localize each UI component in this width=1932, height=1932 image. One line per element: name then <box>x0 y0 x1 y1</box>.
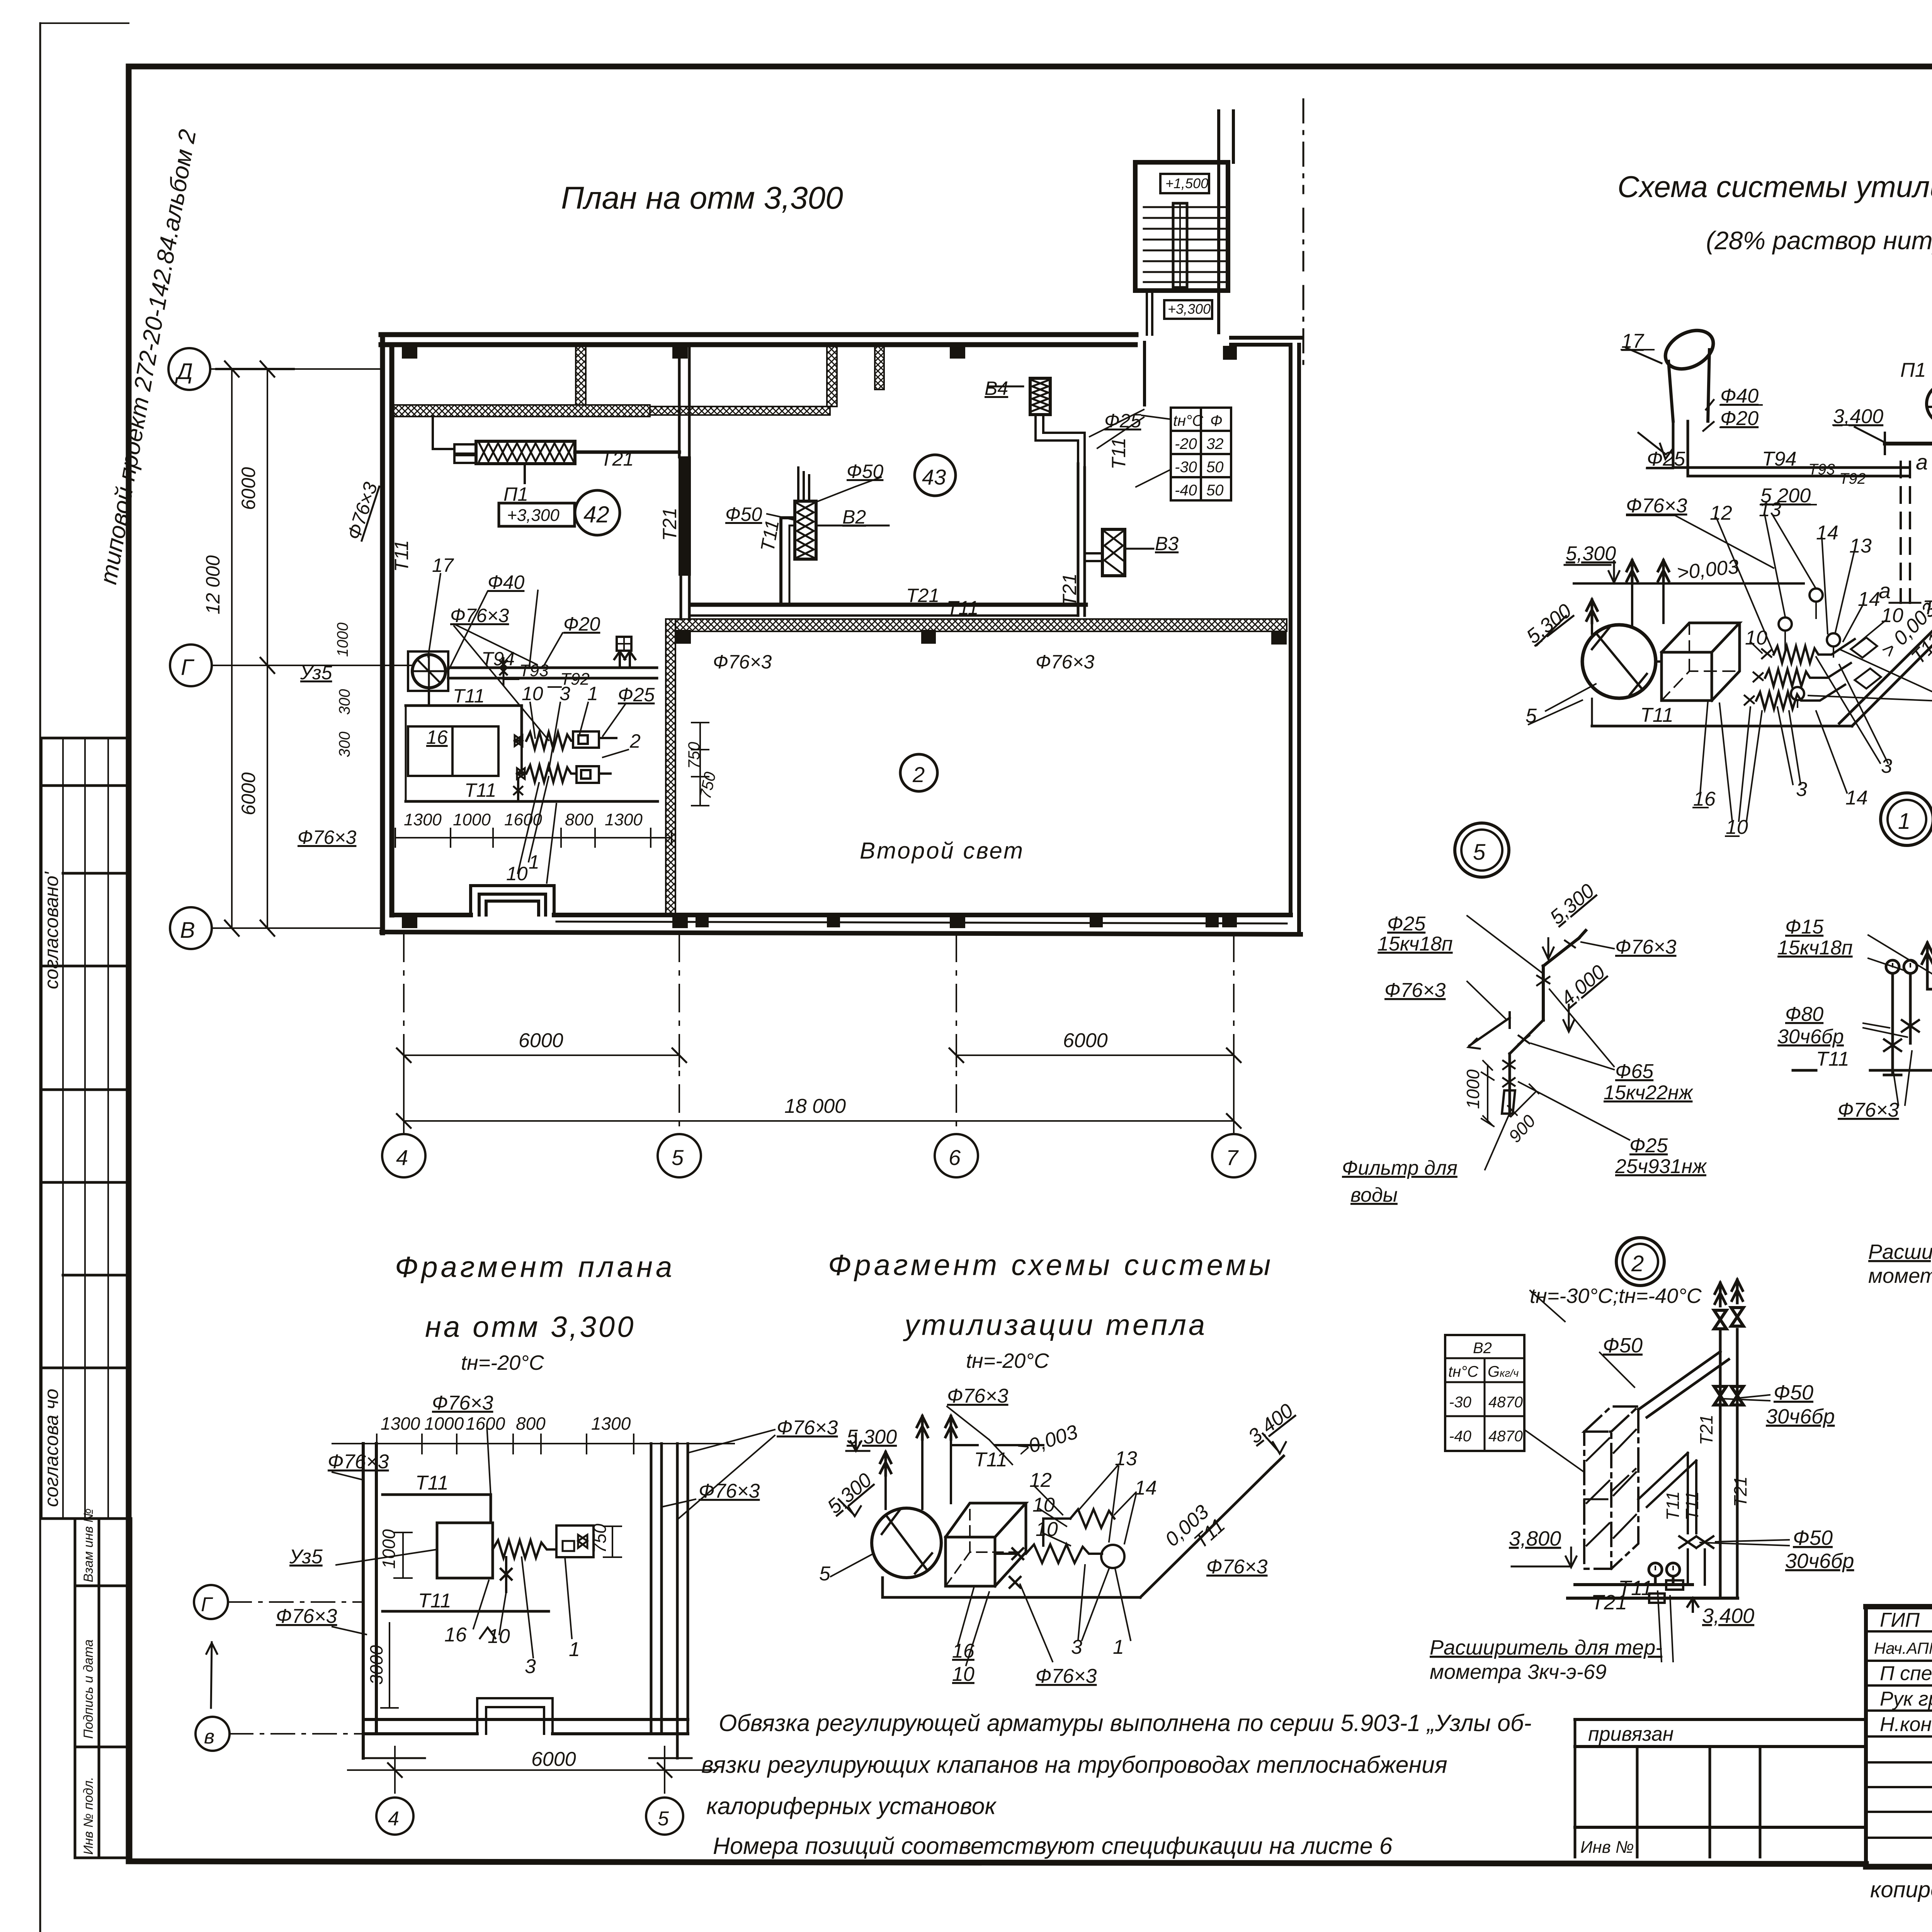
svg-text:Ф: Ф <box>1210 412 1223 429</box>
svg-text:Т11: Т11 <box>418 1590 451 1612</box>
svg-text:Ф25: Ф25 <box>1104 410 1141 432</box>
svg-text:утилизации тепла: утилизации тепла <box>903 1309 1207 1342</box>
vent risers <box>917 1416 928 1439</box>
svg-text:копировал Стаф: копировал Стаф <box>1870 1877 1932 1902</box>
fragment axis circle Г <box>194 1585 228 1619</box>
leaders room 43 <box>989 386 1023 388</box>
inner pipes <box>383 1495 491 1522</box>
vertical T21 pipes down <box>1720 1331 1737 1598</box>
walls <box>363 1444 376 1758</box>
svg-text:Ф76×3: Ф76×3 <box>713 651 772 673</box>
svg-text:Ф76×3: Ф76×3 <box>947 1385 1009 1407</box>
svg-text:Второй свет: Второй свет <box>860 838 1024 864</box>
heat exchanger fan unit 5 <box>1582 625 1656 698</box>
svg-text:-40: -40 <box>1449 1428 1471 1445</box>
svg-text:Ф50: Ф50 <box>725 503 762 525</box>
svg-text:50: 50 <box>1206 482 1224 499</box>
svg-text:16: 16 <box>952 1640 975 1662</box>
zigzag heaters cluster <box>1745 588 1881 709</box>
table В2 flow rates (detail 2 left) <box>1445 1335 1524 1451</box>
B4 heater top <box>1030 378 1050 415</box>
svg-text:Т21: Т21 <box>659 508 680 541</box>
svg-text:17: 17 <box>432 554 454 576</box>
svg-text:Т11: Т11 <box>1816 1048 1849 1070</box>
svg-text:4870: 4870 <box>1488 1428 1523 1445</box>
svg-text:Ф76×3: Ф76×3 <box>450 605 509 626</box>
cube heat exchanger <box>946 1537 995 1586</box>
svg-text:В3: В3 <box>1155 533 1179 554</box>
svg-text:1600: 1600 <box>504 810 542 829</box>
svg-text:1300: 1300 <box>605 810 643 829</box>
svg-text:калориферных установок: калориферных установок <box>706 1793 997 1819</box>
svg-text:Ф80: Ф80 <box>1785 1003 1823 1026</box>
svg-text:Расширитель для тер-: Расширитель для тер- <box>1868 1240 1932 1264</box>
svg-text:tн°C: tн°C <box>1448 1363 1479 1380</box>
svg-text:Г: Г <box>181 655 195 680</box>
room circle 2 <box>900 754 937 791</box>
svg-text:мометра 3кч-э-69: мометра 3кч-э-69 <box>1430 1660 1607 1684</box>
svg-text:согласовано': согласовано' <box>41 871 62 989</box>
detail marker 2 (left) <box>1616 1238 1664 1286</box>
svg-text:14: 14 <box>1134 1477 1157 1499</box>
svg-text:14: 14 <box>1858 588 1880 611</box>
svg-text:Т92: Т92 <box>560 670 590 689</box>
svg-text:Ф25: Ф25 <box>1387 913 1426 935</box>
svg-text:согласова чо: согласова чо <box>41 1389 62 1507</box>
pipes from cylinder <box>1673 421 1909 476</box>
svg-text:300: 300 <box>336 689 353 715</box>
svg-text:Т11: Т11 <box>1640 704 1673 726</box>
svg-text:3000: 3000 <box>366 1645 386 1685</box>
svg-text:750: 750 <box>590 1524 610 1553</box>
svg-text:7: 7 <box>1226 1145 1239 1170</box>
svg-text:4870: 4870 <box>1488 1394 1523 1411</box>
diagonal feed pipes <box>1638 1352 1729 1417</box>
svg-text:Инв № подл.: Инв № подл. <box>81 1777 96 1855</box>
plan labels <box>298 378 1179 884</box>
staircase <box>1135 99 1303 405</box>
svg-text:Фрагмент плана: Фрагмент плана <box>395 1251 675 1284</box>
svg-text:15кч18п: 15кч18п <box>1378 933 1453 955</box>
svg-text:Т21: Т21 <box>1059 573 1080 607</box>
axis circle 6 <box>935 1134 978 1177</box>
svg-text:Ф50: Ф50 <box>1774 1381 1813 1404</box>
svg-text:4: 4 <box>388 1808 399 1830</box>
outer walls double line <box>381 335 1301 934</box>
svg-text:Т93: Т93 <box>1808 461 1835 478</box>
svg-text:а: а <box>1879 578 1891 603</box>
svg-text:В2: В2 <box>1473 1340 1492 1357</box>
door <box>477 1698 553 1734</box>
axis circle 7 <box>1212 1134 1255 1177</box>
axis circle Д <box>168 348 210 390</box>
svg-text:Ф40: Ф40 <box>488 571 525 593</box>
leaders t94 pipe labels <box>503 679 561 687</box>
svg-text:Ф50: Ф50 <box>1793 1526 1833 1549</box>
t/Ф table in plan <box>1171 408 1231 500</box>
unit bottom line <box>1592 725 1852 728</box>
svg-text:5: 5 <box>658 1808 669 1830</box>
svg-text:Номера позиций соответствуют: Номера позиций соответствуют спецификаци… <box>713 1833 1393 1859</box>
isometric hatched block (tall) <box>1584 1406 1638 1569</box>
svg-text:13: 13 <box>1849 535 1872 557</box>
svg-text:Ф76×3: Ф76×3 <box>699 1480 760 1502</box>
svg-text:В: В <box>180 918 195 943</box>
svg-text:5,300: 5,300 <box>1566 543 1616 565</box>
svg-text:1300: 1300 <box>381 1413 420 1434</box>
leader lines bottom unit <box>428 574 628 883</box>
bottom dim + circles 4,5 <box>395 1747 665 1793</box>
svg-text:Ф25: Ф25 <box>1629 1134 1668 1157</box>
fragment axis circle В <box>196 1717 230 1751</box>
svg-text:П1: П1 <box>1900 359 1926 381</box>
svg-text:+3,300: +3,300 <box>1168 301 1211 317</box>
zigzag + pump row <box>995 1553 1015 1555</box>
svg-text:15кч18п: 15кч18п <box>1777 937 1853 959</box>
svg-text:-30: -30 <box>1175 459 1197 476</box>
svg-text:Т93: Т93 <box>519 661 549 680</box>
unit Уз5 fan circle <box>412 655 446 688</box>
svg-text:Нач.АПМ-2: Нач.АПМ-2 <box>1874 1639 1932 1657</box>
room number circles <box>499 455 956 791</box>
svg-text:-20: -20 <box>1175 435 1197 452</box>
plan interior equipment & pipes <box>395 378 1153 883</box>
svg-text:Рук гр: Рук гр <box>1880 1688 1932 1710</box>
fragment schema fan unit 5 <box>872 1508 941 1578</box>
svg-text:Т11: Т11 <box>1663 1491 1683 1520</box>
leaders <box>332 1426 775 1658</box>
svg-text:6000: 6000 <box>531 1748 576 1770</box>
svg-text:6: 6 <box>949 1145 961 1170</box>
leaders left unit <box>1546 684 1596 711</box>
svg-text:tн=-30°C;tн=-40°C: tн=-30°C;tн=-40°C <box>1530 1284 1702 1308</box>
svg-text:Т94: Т94 <box>1762 448 1797 470</box>
svg-text:Ф76×3: Ф76×3 <box>1384 979 1446 1002</box>
svg-text:Ф50: Ф50 <box>847 461 884 482</box>
bottom line and diagonal <box>883 1578 1140 1597</box>
svg-text:30ч6бр: 30ч6бр <box>1785 1549 1854 1573</box>
svg-text:Ф65: Ф65 <box>1615 1060 1654 1083</box>
svg-text:В2: В2 <box>842 506 866 528</box>
svg-text:43: 43 <box>922 465 946 489</box>
svg-text:1000: 1000 <box>379 1529 399 1569</box>
svg-text:3,400: 3,400 <box>1702 1604 1754 1628</box>
T21 upper line <box>1885 442 1932 446</box>
svg-text:300: 300 <box>336 731 353 757</box>
svg-text:750: 750 <box>685 742 703 769</box>
svg-text:П спец: П спец <box>1880 1662 1932 1685</box>
svg-text:2: 2 <box>629 730 641 752</box>
svg-text:4: 4 <box>396 1145 408 1170</box>
svg-text:30ч6бр: 30ч6бр <box>1777 1026 1844 1048</box>
svg-text:3: 3 <box>1796 778 1807 801</box>
svg-text:6000: 6000 <box>238 772 259 815</box>
svg-text:+3,300: +3,300 <box>507 506 560 525</box>
svg-text:10: 10 <box>506 863 528 884</box>
svg-text:2: 2 <box>1631 1251 1644 1276</box>
detail marker 1 <box>1881 793 1932 845</box>
svg-text:1300: 1300 <box>591 1413 631 1434</box>
svg-text:Ф76×3: Ф76×3 <box>1036 651 1095 673</box>
svg-text:а: а <box>1916 450 1928 474</box>
svg-text:50: 50 <box>1206 459 1224 476</box>
svg-text:Д: Д <box>175 359 193 384</box>
svg-text:Обвязка регулирующей арматуры: Обвязка регулирующей арматуры выполнена … <box>719 1710 1532 1736</box>
svg-text:Ф76×3: Ф76×3 <box>1206 1556 1268 1578</box>
svg-text:Т11: Т11 <box>453 685 485 707</box>
svg-text:Расширитель для тер-: Расширитель для тер- <box>1430 1636 1662 1659</box>
svg-text:Фильтр для: Фильтр для <box>1342 1157 1458 1179</box>
svg-text:Ф25: Ф25 <box>618 684 655 706</box>
svg-text:42: 42 <box>583 502 609 527</box>
svg-text:Т11: Т11 <box>391 540 412 572</box>
svg-text:План на отм 3,300: План на отм 3,300 <box>561 180 843 216</box>
svg-text:воды: воды <box>1350 1184 1398 1206</box>
dimension row inside plan <box>395 828 672 847</box>
svg-text:привязан: привязан <box>1588 1723 1673 1745</box>
fragment axis circle 5 <box>646 1798 683 1835</box>
axis circle 5 <box>658 1134 701 1177</box>
svg-text:15кч22нж: 15кч22нж <box>1604 1082 1694 1104</box>
svg-text:10: 10 <box>1881 604 1903 627</box>
svg-text:1: 1 <box>1113 1636 1124 1658</box>
axis circle В <box>170 907 212 949</box>
svg-text:Т21: Т21 <box>600 448 634 470</box>
sheet outer thin border left <box>39 23 41 1932</box>
svg-text:Н.контр: Н.контр <box>1880 1713 1932 1736</box>
svg-text:1000: 1000 <box>453 810 491 829</box>
svg-text:Взам инв №: Взам инв № <box>81 1509 96 1582</box>
vent risers <box>1627 560 1638 583</box>
svg-text:3: 3 <box>1071 1636 1082 1658</box>
svg-text:Ф50: Ф50 <box>1603 1334 1643 1357</box>
svg-text:Ф76×3: Ф76×3 <box>1615 936 1677 958</box>
svg-text:Ф76×3: Ф76×3 <box>432 1392 493 1414</box>
svg-text:Ф20: Ф20 <box>1720 407 1759 430</box>
svg-text:Т94: Т94 <box>481 648 515 670</box>
room circle 42 <box>575 490 620 535</box>
привязан sub table <box>1575 1719 1866 1827</box>
svg-text:10: 10 <box>522 683 543 704</box>
svg-text:ГИП: ГИП <box>1880 1609 1920 1631</box>
svg-text:+1,500: +1,500 <box>1165 175 1208 191</box>
svg-text:Фрагмент схемы системы: Фрагмент схемы системы <box>828 1249 1274 1282</box>
svg-text:30ч6бр: 30ч6бр <box>1766 1405 1835 1428</box>
svg-text:Т21: Т21 <box>1591 1591 1627 1614</box>
svg-text:-30: -30 <box>1449 1394 1471 1411</box>
svg-text:1000: 1000 <box>334 622 351 657</box>
svg-text:32: 32 <box>1206 435 1224 452</box>
svg-text:Ф40: Ф40 <box>1720 385 1759 407</box>
svg-text:6000: 6000 <box>238 467 259 510</box>
svg-text:6000: 6000 <box>519 1029 563 1052</box>
svg-text:Т11: Т11 <box>415 1472 449 1494</box>
svg-text:Ф76×3: Ф76×3 <box>328 1451 389 1473</box>
svg-text:Ф76×3: Ф76×3 <box>276 1605 337 1628</box>
svg-text:14: 14 <box>1816 522 1838 544</box>
svg-text:Т11: Т11 <box>1682 1491 1702 1520</box>
svg-text:800: 800 <box>565 810 594 829</box>
svg-text:10: 10 <box>1032 1494 1055 1516</box>
fragment axis circle 4 <box>376 1798 413 1835</box>
svg-text:Т92: Т92 <box>1839 470 1866 487</box>
svg-text:13: 13 <box>1759 498 1781 521</box>
П1 heater block top-left <box>476 441 575 464</box>
svg-text:5: 5 <box>819 1563 831 1585</box>
svg-text:Ф76×3: Ф76×3 <box>1838 1099 1899 1121</box>
svg-text:Инв №: Инв № <box>1580 1838 1634 1857</box>
T11/T21 lines <box>1575 1583 1692 1586</box>
svg-text:5: 5 <box>1473 840 1486 865</box>
B3 heater <box>1102 529 1125 576</box>
svg-text:3,800: 3,800 <box>1509 1527 1561 1550</box>
svg-text:1: 1 <box>569 1638 580 1661</box>
svg-text:12: 12 <box>1710 502 1732 524</box>
svg-text:1600: 1600 <box>466 1413 505 1434</box>
svg-text:10: 10 <box>1036 1518 1058 1541</box>
svg-text:16: 16 <box>426 726 448 748</box>
svg-text:Т11: Т11 <box>947 597 978 619</box>
svg-text:Подпись и дата: Подпись и дата <box>81 1639 96 1739</box>
svg-text:Г: Г <box>201 1594 213 1616</box>
svg-text:1300: 1300 <box>404 810 442 829</box>
svg-text:5,300: 5,300 <box>847 1426 897 1448</box>
svg-text:Т11: Т11 <box>974 1449 1007 1471</box>
top dim row <box>332 1443 734 1444</box>
svg-text:Т21: Т21 <box>906 585 939 606</box>
svg-text:Ф76×3: Ф76×3 <box>298 827 357 848</box>
svg-text:Ф15: Ф15 <box>1785 916 1824 938</box>
fan П1 <box>1927 384 1932 424</box>
svg-text:tн=-20°C: tн=-20°C <box>966 1349 1049 1372</box>
svg-text:tн=-20°C: tн=-20°C <box>461 1351 544 1374</box>
schematic labels <box>1522 273 1932 838</box>
mid diagonals <box>1638 1453 1696 1507</box>
axis circle 4 <box>382 1134 425 1177</box>
svg-text:В4: В4 <box>985 378 1008 399</box>
svg-text:Ф76×3: Ф76×3 <box>777 1417 838 1439</box>
svg-text:13: 13 <box>1115 1447 1137 1470</box>
detail marker 5 <box>1455 823 1509 877</box>
svg-text:tн°C: tн°C <box>1173 412 1204 429</box>
svg-text:6000: 6000 <box>1063 1029 1108 1052</box>
B2 heater vertical <box>795 501 816 559</box>
column squares <box>402 343 1287 928</box>
svg-text:1000: 1000 <box>424 1413 464 1434</box>
svg-text:12 000: 12 000 <box>202 555 224 614</box>
svg-text:5: 5 <box>672 1145 684 1170</box>
svg-text:Ф76×3: Ф76×3 <box>1626 495 1687 517</box>
deflector cylinder 17 <box>1659 323 1720 377</box>
svg-text:2: 2 <box>912 762 925 787</box>
hatched partitions <box>392 345 1287 915</box>
svg-text:10: 10 <box>488 1625 510 1648</box>
svg-text:10: 10 <box>952 1663 975 1685</box>
dashed risers a <box>1901 462 1910 603</box>
axis circle Г <box>170 645 212 686</box>
svg-text:800: 800 <box>516 1413 546 1434</box>
svg-text:Схема системы утилизации тепла: Схема системы утилизации тепла <box>1617 170 1932 204</box>
svg-text:Ф76×3: Ф76×3 <box>1036 1665 1097 1687</box>
svg-text:12: 12 <box>1029 1469 1052 1492</box>
svg-text:Уз5: Уз5 <box>289 1546 323 1568</box>
svg-text:на отм 3,300: на отм 3,300 <box>425 1311 636 1344</box>
svg-text:1: 1 <box>1898 809 1910 834</box>
svg-text:10: 10 <box>1726 816 1748 838</box>
svg-text:(28% раствор нитрита натрия): (28% раствор нитрита натрия) <box>1706 226 1932 255</box>
two zigzag rows with valves <box>514 731 616 801</box>
svg-text:10: 10 <box>1745 627 1767 649</box>
svg-text:1000: 1000 <box>1463 1069 1483 1109</box>
svg-text:вязки регулирующих клапанов на: вязки регулирующих клапанов на трубопров… <box>701 1752 1447 1778</box>
svg-text:в: в <box>204 1726 214 1748</box>
svg-text:Т21: Т21 <box>1696 1415 1716 1445</box>
svg-text:Ф20: Ф20 <box>563 613 600 635</box>
svg-text:мометра 3кч-э-69: мометра 3кч-э-69 <box>1868 1264 1932 1287</box>
svg-text:14: 14 <box>1845 787 1868 809</box>
door entrance bottom <box>471 886 554 915</box>
svg-text:1: 1 <box>529 851 539 873</box>
svg-text:-40: -40 <box>1175 482 1197 499</box>
table tн/Ф in plan <box>1171 408 1231 500</box>
left diagonal Т11 down to unit <box>1839 563 1932 723</box>
svg-text:3: 3 <box>525 1655 536 1678</box>
svg-text:3: 3 <box>1881 755 1892 777</box>
svg-text:Т11: Т11 <box>1108 438 1129 469</box>
svg-text:25ч931нж: 25ч931нж <box>1615 1155 1707 1178</box>
svg-text:18 000: 18 000 <box>784 1095 846 1117</box>
room circle 43 <box>915 455 956 496</box>
svg-text:Т11: Т11 <box>464 779 496 801</box>
room 43 loop <box>690 603 1086 607</box>
svg-text:16: 16 <box>444 1624 467 1646</box>
svg-text:Т21: Т21 <box>1730 1476 1750 1507</box>
